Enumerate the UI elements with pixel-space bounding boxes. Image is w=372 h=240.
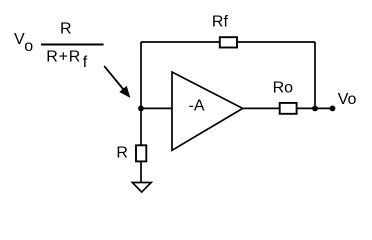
- svg-text:-A: -A: [189, 98, 205, 115]
- svg-text:R+R: R+R: [46, 48, 81, 65]
- svg-text:o: o: [24, 38, 33, 55]
- svg-text:Rf: Rf: [212, 14, 229, 31]
- svg-text:R: R: [116, 145, 128, 162]
- svg-text:Ro: Ro: [273, 79, 294, 96]
- svg-text:R: R: [60, 20, 72, 37]
- svg-text:f: f: [83, 54, 88, 71]
- svg-text:Vo: Vo: [338, 91, 357, 108]
